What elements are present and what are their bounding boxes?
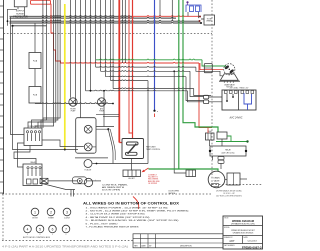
wire feeder v43 — [28, 0, 43, 128]
svg-text:P-LBL-HT: P-LBL-HT — [85, 169, 92, 171]
svg-text:6: 6 — [52, 227, 54, 231]
wire door switch feeder — [174, 71, 186, 173]
svg-text:AVC 24VAC: AVC 24VAC — [229, 116, 243, 119]
lamp L1 — [84, 143, 92, 151]
wire feeder v56 to contactor — [38, 0, 56, 128]
interface board box — [222, 90, 256, 110]
wire fuse holder left lead — [187, 12, 189, 16]
hi-limit element Z — [127, 142, 139, 145]
drain valve pedestal — [220, 74, 238, 81]
wire nut node 3 — [200, 22, 202, 24]
wire drop pair — [71, 190, 74, 197]
svg-text:PUMP: PUMP — [99, 110, 104, 112]
svg-text:7: 7 — [65, 227, 67, 231]
svg-text:OF FRYER: OF FRYER — [148, 183, 158, 185]
svg-text:ALL WIRES GO IN BOTTOM OF CONT: ALL WIRES GO IN BOTTOM OF CONTROL BOX — [83, 200, 179, 205]
node M2 feeder tap — [75, 103, 77, 105]
svg-text:24V ELEC (OR WHICH ASSY): 24V ELEC (OR WHICH ASSY) — [216, 195, 242, 198]
wire feeder v58 to contactor — [41, 0, 58, 128]
svg-text:(24V CHG COIL): (24V CHG COIL) — [222, 153, 235, 155]
relay K1 box — [210, 146, 246, 156]
door switch DS1 — [186, 170, 196, 177]
svg-text:DRAIN: DRAIN — [214, 177, 221, 180]
control box boundary dashed left lower — [2, 194, 4, 241]
wire plug to board — [209, 97, 222, 102]
svg-text:VALVE: VALVE — [214, 180, 221, 183]
contactor C2 — [23, 164, 42, 186]
wire solenoid green tail — [216, 136, 248, 142]
node bus tap A — [7, 20, 9, 22]
bus N horizontal — [10, 20, 200, 23]
node bus tap B — [11, 25, 13, 27]
svg-text:n: n — [157, 111, 158, 113]
revision table — [133, 234, 223, 248]
note mode text — [216, 189, 242, 197]
solenoid box — [217, 132, 227, 139]
svg-text:UPDATED ELECTRONICS: UPDATED ELECTRONICS — [233, 232, 254, 235]
note wire list — [86, 207, 189, 228]
svg-text:4: 4 — [27, 227, 29, 231]
wire surge box stub — [17, 7, 19, 10]
contactor C1 — [24, 128, 42, 146]
node hop bus end — [112, 103, 114, 105]
gearbox box — [227, 173, 240, 185]
wire green riser G1 — [178, 0, 180, 169]
wire red riser R1 thick — [118, 0, 120, 143]
wire fuse A top lead — [34, 23, 36, 53]
transformer T1 crossed — [40, 178, 48, 183]
wire nut node 1 — [199, 16, 201, 18]
plug pair below relay — [218, 157, 224, 160]
svg-text:FILTER: FILTER — [70, 109, 76, 111]
wire red riser R3 — [129, 0, 133, 133]
wire C2 to terminal — [48, 180, 77, 182]
wire feeder v60 to contactor — [43, 0, 60, 128]
interface board left contacts — [227, 94, 233, 101]
interface board blue jumper — [244, 93, 252, 110]
sheet border left zone ticks — [0, 6, 4, 193]
wire dist 2 plug upper — [100, 0, 102, 71]
svg-text:3 - CLUTCH 18-2 WIRE (3/4" STR: 3 - CLUTCH 18-2 WIRE (3/4" STRIP 8 IN) — [86, 214, 145, 216]
wire dist 1 drain valve — [95, 0, 97, 67]
node yellow junction — [64, 149, 66, 151]
drain motor M3 — [208, 171, 225, 188]
hop bus lower — [35, 102, 113, 105]
wire C1 to lamp — [42, 140, 84, 147]
svg-text:CLUTCH: CLUTCH — [64, 218, 70, 220]
wire motor M1 feeder — [70, 0, 72, 98]
red callout arrow — [143, 168, 149, 172]
svg-text:POWER: POWER — [48, 218, 53, 220]
wire fuse A to B — [34, 69, 36, 87]
wire lamp L2 branch — [85, 0, 87, 91]
wire C1 bottom to C2 — [14, 146, 36, 165]
svg-text:SURGE: SURGE — [16, 14, 24, 16]
motor M2 ato pump — [97, 98, 105, 106]
svg-text:DESCRIPTION: DESCRIPTION — [180, 246, 192, 248]
wire C2 diagonal drop — [42, 184, 75, 190]
svg-text:1: 1 — [34, 210, 36, 214]
svg-text:FPEM5-0067-3: FPEM5-0067-3 — [242, 246, 262, 250]
wire C1 loop to C2 — [18, 143, 25, 167]
wire feeder v46 — [32, 0, 47, 128]
surge protector label — [13, 11, 28, 19]
svg-text:1 - INCOMING POWER - 10-4 WIRE: 1 - INCOMING POWER - 10-4 WIRE (6" STRIP… — [86, 207, 168, 209]
wire motor to gearbox — [225, 179, 227, 181]
svg-text:WIRING DIAGRAM: WIRING DIAGRAM — [232, 220, 254, 223]
wire fuse B bottom lead — [34, 102, 36, 105]
wire terminal to panel — [87, 180, 102, 182]
wire red riser R2 — [132, 0, 134, 139]
node blue terminal — [153, 110, 155, 112]
bus L1 red segment — [133, 15, 200, 18]
svg-text:DOOR OPEN: DOOR OPEN — [102, 190, 121, 192]
wire feeder v54 to contactor — [35, 0, 54, 128]
drain motor base — [212, 184, 219, 187]
junction box TO FRYER WIRING — [204, 15, 215, 25]
terminal ring — [73, 177, 87, 184]
bus G horizontal — [10, 21, 202, 24]
wire red bus mid — [61, 61, 200, 64]
svg-text:5 - BURNER SOLENOID 18-4 WIRE: 5 - BURNER SOLENOID 18-4 WIRE (3/4" STRI… — [86, 220, 180, 222]
control box boundary dashed bottom — [2, 240, 133, 242]
wire TB-M to relay — [212, 156, 214, 160]
wire dist 4 hi-limit — [110, 0, 112, 81]
svg-text:3: 3 — [66, 210, 68, 214]
svg-text:5: 5 — [39, 227, 41, 231]
red callout note — [148, 175, 160, 185]
wire dist stub B — [124, 0, 126, 63]
wire red L1 drop — [51, 4, 61, 63]
terminal block TB1 — [123, 170, 141, 177]
control box boundary dashed horizontal lower — [2, 193, 212, 195]
wire dist 5 board — [112, 0, 114, 89]
wire panel junction — [107, 128, 109, 130]
wire top feeder to bus — [171, 0, 173, 21]
wire dist 3 plug lower — [105, 0, 107, 77]
supply terminal box — [14, 0, 27, 7]
wire blue terminal tail — [154, 114, 156, 118]
svg-text:4 - BETA PUMP 18-2 WIRE (3/4": 4 - BETA PUMP 18-2 WIRE (3/4" STRIP 8 IN… — [86, 216, 150, 219]
wire green dist bus — [96, 58, 202, 61]
interface board terminals — [225, 91, 254, 94]
plug P1 — [204, 95, 209, 99]
svg-text:SUPPLY: SUPPLY — [16, 11, 25, 13]
svg-text:PUMP: PUMP — [71, 110, 76, 112]
grommet holes group — [24, 208, 71, 236]
wire board to TB-M — [207, 128, 209, 134]
wire green hi-limit to drain — [149, 169, 219, 172]
node dist2 junction — [173, 70, 175, 72]
fuse block FU-A — [29, 53, 41, 69]
wire nut node 2 — [199, 20, 201, 22]
switch S1 power — [84, 178, 92, 186]
svg-text:4 F-5 (JA) PART # A-2010 UPDAT: 4 F-5 (JA) PART # A-2010 UPDATED TRANSFO… — [2, 245, 128, 248]
svg-text:24 V NO - UP: 24 V NO - UP — [223, 193, 235, 195]
svg-text:WIRED: WIRED — [206, 21, 212, 23]
wire short feeder v160 — [159, 0, 161, 16]
wire panel drop curves — [108, 129, 113, 163]
wire dist stub A — [121, 0, 123, 63]
lamp L2 pilot — [84, 160, 92, 168]
fuse holder F1 terminal dot — [186, 1, 188, 3]
wire red riser R1 into hi-limit — [119, 142, 122, 144]
svg-text:5-16-2013: 5-16-2013 — [247, 240, 257, 242]
bus L2 horizontal — [10, 16, 177, 19]
svg-text:2: 2 — [50, 210, 52, 214]
sheet border left — [3, 0, 5, 194]
svg-text:TEMP CONTROL: TEMP CONTROL — [146, 149, 160, 151]
control box boundary dashed vertical right — [211, 0, 213, 185]
svg-text:(IN FEEDBACK MODE 24VAC: (IN FEEDBACK MODE 24VAC — [216, 189, 242, 192]
svg-text:MOTOR: MOTOR — [32, 218, 37, 220]
wire fuse holder right lead — [198, 12, 200, 18]
wire gearbox tail — [240, 178, 247, 180]
red supply box R — [31, 0, 51, 4]
svg-text:SWITCH: SWITCH — [169, 193, 176, 195]
svg-text:RELAY: RELAY — [225, 149, 231, 152]
terminal block TB-M — [206, 133, 215, 140]
plug P2 fan leads — [204, 64, 212, 73]
wire motor M2 feeder — [75, 0, 77, 104]
bus L1 horizontal — [10, 15, 134, 18]
svg-text:MODEL:: MODEL: — [224, 227, 231, 229]
svg-text:TITLE:: TITLE: — [224, 217, 229, 219]
svg-text:6 - PLUG - NOT USED: 6 - PLUG - NOT USED — [86, 223, 119, 225]
motor M1 filter pump — [69, 98, 77, 106]
svg-text:HI-LIMIT: HI-LIMIT — [128, 178, 134, 180]
wire red branch drain motor — [200, 63, 223, 70]
drain valve motor fan — [224, 64, 235, 75]
svg-text:7 - FLOW AND PRESSURE SWITCH W: 7 - FLOW AND PRESSURE SWITCH WIRES — [86, 226, 140, 229]
wire red right drop — [199, 63, 212, 128]
wire bus to junction box — [201, 18, 204, 20]
node pilot lamp junction — [96, 163, 98, 165]
svg-text:MJT: MJT — [229, 239, 234, 243]
buzzer B1 — [84, 125, 92, 133]
wire blue riser — [154, 0, 156, 111]
hi-limit control box — [122, 139, 144, 159]
wire yellow riser — [64, 4, 66, 150]
wire bus to C1 lower — [13, 26, 79, 150]
wire red pigtail — [133, 197, 139, 210]
wire bus to C1 — [11, 17, 25, 135]
svg-text:BOTTOM OF CONTROL BOX: BOTTOM OF CONTROL BOX — [23, 237, 51, 239]
wire panel feed — [75, 157, 108, 159]
wire transformer feeder — [80, 0, 82, 118]
zone boundary dashed horizontal upper — [4, 33, 213, 35]
fuse block FU-B — [29, 87, 41, 104]
control box boundary dashed horizontal right — [212, 184, 263, 186]
transformer box — [76, 118, 96, 154]
relay K1 terminals — [209, 150, 211, 152]
wire lamp L1 branch — [90, 0, 92, 91]
title block box — [223, 216, 263, 249]
wire hi-limit TB feed — [131, 159, 133, 171]
node solenoid green end — [246, 140, 248, 142]
wire green riser G2 — [183, 0, 218, 132]
svg-text:2 - MOTOR - 10-4 WIRE (3/4" ST: 2 - MOTOR - 10-4 WIRE (3/4" STRIP 8 IN, … — [86, 211, 189, 213]
wire surge box to bus left drop — [8, 9, 18, 26]
fuse holder F1 blue body — [186, 5, 201, 12]
